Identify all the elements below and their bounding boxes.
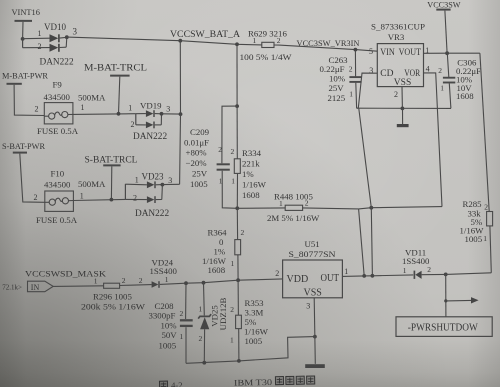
svg-text:1005: 1005 <box>159 340 177 350</box>
svg-text:25V: 25V <box>192 168 208 178</box>
power symbol M-BAT-PWR <box>2 71 48 116</box>
fuse F9 <box>35 80 107 137</box>
junction y207 <box>369 206 373 210</box>
svg-text:0: 0 <box>219 237 224 247</box>
label box -PWRSHUTDOW <box>396 317 492 337</box>
wire rail drop to VD19/VD23 <box>179 41 182 185</box>
svg-text:1: 1 <box>135 175 139 184</box>
IC U51 S_80777SN <box>275 239 348 311</box>
svg-text:+80%: +80% <box>186 148 208 158</box>
wire IN to R296 <box>53 285 103 288</box>
dual diode VD10 (DAN222) <box>21 22 78 68</box>
svg-text:3: 3 <box>166 105 170 114</box>
svg-text:100 5% 1/4W: 100 5% 1/4W <box>240 52 293 62</box>
svg-text:DAN222: DAN222 <box>135 209 169 219</box>
wire drop to OUT wire <box>371 208 375 278</box>
svg-text:R334: R334 <box>242 148 262 158</box>
svg-text:1%: 1% <box>242 169 254 179</box>
svg-text:1: 1 <box>230 336 234 345</box>
svg-text:2: 2 <box>199 334 203 343</box>
wire CD to VSS rail <box>358 73 377 108</box>
wire horizontal y207 <box>359 207 442 209</box>
resistor R364 <box>202 208 245 280</box>
svg-text:1: 1 <box>349 90 353 99</box>
junction F9/M-BAT-TRCL <box>117 112 121 116</box>
zener diode VD25 UDZ12B <box>198 283 228 363</box>
svg-text:5%: 5% <box>245 317 257 327</box>
svg-text:1: 1 <box>344 267 348 276</box>
svg-text:1005: 1005 <box>465 234 483 244</box>
svg-text:2: 2 <box>277 36 281 45</box>
svg-text:1608: 1608 <box>456 91 474 101</box>
svg-text:2: 2 <box>35 104 39 113</box>
svg-text:50V: 50V <box>162 330 178 340</box>
svg-text:VOUT: VOUT <box>399 48 422 58</box>
wire VD11 to R285 foot <box>446 273 492 275</box>
power symbol VCC3SW <box>427 0 460 53</box>
svg-text:U51: U51 <box>305 239 320 249</box>
svg-text:1: 1 <box>80 192 84 201</box>
svg-text:10%: 10% <box>161 320 178 330</box>
svg-text:VSS: VSS <box>304 287 322 298</box>
input port IN <box>2 281 53 292</box>
wire to PWRSHUTDOWN box <box>444 274 447 316</box>
svg-text:-PWRSHUTDOW: -PWRSHUTDOW <box>408 323 479 334</box>
svg-text:2: 2 <box>230 305 234 314</box>
svg-text:200k 5% 1/16W: 200k 5% 1/16W <box>81 301 146 311</box>
junction F10/S-BAT-TRCL <box>110 198 114 202</box>
svg-text:1: 1 <box>94 277 98 286</box>
svg-text:1: 1 <box>219 177 223 186</box>
svg-text:VD19: VD19 <box>140 101 162 111</box>
svg-text:1: 1 <box>180 332 184 341</box>
dual diode VD19 (DAN222) <box>128 101 170 143</box>
fuse F10 <box>34 169 107 225</box>
svg-text:1: 1 <box>199 304 203 313</box>
resistor R285 <box>460 53 493 273</box>
svg-text:434500: 434500 <box>44 92 71 102</box>
svg-text:1SS400: 1SS400 <box>150 266 178 276</box>
svg-text:2: 2 <box>139 276 143 285</box>
svg-text:VCC3SW_VR3IN: VCC3SW_VR3IN <box>297 39 360 48</box>
svg-text:2: 2 <box>122 276 126 285</box>
svg-text:500MA: 500MA <box>78 92 106 102</box>
svg-text:VIN: VIN <box>380 48 395 58</box>
svg-text:2: 2 <box>484 203 488 212</box>
svg-text:OUT: OUT <box>321 273 340 284</box>
wire VR3 VSS pin <box>401 87 405 111</box>
svg-text:10%: 10% <box>329 73 346 83</box>
svg-text:2: 2 <box>180 309 184 318</box>
junction on rail at VD19 branch <box>178 39 182 43</box>
svg-text:2: 2 <box>131 120 135 129</box>
ground at U51 <box>305 364 325 368</box>
svg-text:VCCSW_BAT_A: VCCSW_BAT_A <box>170 29 240 39</box>
svg-text:3300pF: 3300pF <box>149 311 176 321</box>
wire VOUT <box>424 51 480 55</box>
wire VD19 pin3 to rail <box>162 112 183 116</box>
svg-text:2: 2 <box>133 194 137 203</box>
wire VSS-rail slant drop <box>359 109 372 208</box>
svg-text:VR3: VR3 <box>388 32 405 42</box>
power symbol M-BAT-TRCL <box>84 64 147 114</box>
wire VD23 pin3 up <box>162 183 179 185</box>
capacitor C208 <box>149 283 193 363</box>
svg-text:R285: R285 <box>463 199 483 209</box>
svg-text:FUSE 0.5A: FUSE 0.5A <box>36 215 78 225</box>
svg-text:0.01μF: 0.01μF <box>184 137 209 147</box>
svg-text:DAN222: DAN222 <box>133 132 167 142</box>
svg-text:2M 5% 1/16W: 2M 5% 1/16W <box>267 213 320 223</box>
svg-text:R364: R364 <box>208 227 228 237</box>
svg-text:2: 2 <box>275 269 279 278</box>
svg-text:2: 2 <box>427 265 431 274</box>
capacitor C263 <box>320 48 362 109</box>
wire VOR drop <box>424 73 443 207</box>
svg-text:434500: 434500 <box>44 180 71 190</box>
svg-text:VCC3SW: VCC3SW <box>427 0 460 9</box>
svg-text:2: 2 <box>438 66 442 75</box>
svg-text:3: 3 <box>168 176 172 185</box>
svg-text:500MA: 500MA <box>78 179 106 189</box>
svg-text:2: 2 <box>231 147 235 156</box>
svg-text:1SS400: 1SS400 <box>402 256 430 266</box>
svg-text:3.3M: 3.3M <box>245 307 264 317</box>
power symbol S-BAT-PWR <box>2 141 45 203</box>
svg-text:1: 1 <box>81 103 85 112</box>
svg-text:1: 1 <box>440 83 444 92</box>
junction VD25 <box>202 281 206 285</box>
svg-text:2: 2 <box>218 145 222 154</box>
svg-text:VD23: VD23 <box>142 172 164 182</box>
svg-text:1005: 1005 <box>245 336 263 346</box>
resistor R629 <box>240 29 293 62</box>
wire F10 to VD23 <box>73 199 125 200</box>
svg-text:2: 2 <box>349 65 353 74</box>
svg-text:CD: CD <box>380 69 393 79</box>
svg-text:VD10: VD10 <box>44 22 66 32</box>
svg-text:S-BAT-PWR: S-BAT-PWR <box>2 141 45 151</box>
junction PWRSHUTDOWN <box>444 273 448 277</box>
svg-text:VDD: VDD <box>287 274 309 285</box>
caption figure 4-2 IBM T30 <box>159 376 314 387</box>
svg-text:F9: F9 <box>53 80 63 90</box>
svg-text:M-BAT-TRCL: M-BAT-TRCL <box>84 64 147 74</box>
node VCCSWSD_MASK <box>25 268 107 278</box>
svg-text:1/16W: 1/16W <box>244 327 269 337</box>
svg-text:1: 1 <box>128 104 132 113</box>
svg-text:UDZ12B: UDZ12B <box>218 297 228 330</box>
svg-text:3: 3 <box>306 302 310 311</box>
wire VCCSW_BAT_A rail <box>67 37 378 51</box>
svg-text:221k: 221k <box>242 159 260 169</box>
svg-text:1: 1 <box>165 275 169 284</box>
svg-text:VINT16: VINT16 <box>12 8 40 17</box>
capacitor C209 <box>184 44 239 208</box>
dual diode VD23 (DAN222) <box>125 172 172 220</box>
junction on rail at R334/C209 branch <box>235 42 239 46</box>
wire R296 to VD24 <box>120 284 152 287</box>
svg-text:−20%: −20% <box>186 158 208 168</box>
svg-text:1005: 1005 <box>190 179 208 189</box>
svg-text:IBM T30: IBM T30 <box>234 377 272 387</box>
svg-text:25V: 25V <box>329 83 345 93</box>
wire bottom rail <box>186 337 315 365</box>
svg-text:1: 1 <box>403 266 407 275</box>
diode VD24 1SS400 <box>139 257 178 288</box>
arrow PWRSHUTDOWN <box>446 297 479 303</box>
svg-text:2: 2 <box>394 90 398 99</box>
svg-text:72.1k>: 72.1k> <box>2 283 22 291</box>
resistor R448 <box>237 191 358 223</box>
svg-text:1: 1 <box>279 199 283 208</box>
wire VSS rail <box>357 107 451 109</box>
resistor R334 <box>231 106 267 208</box>
svg-text:2125: 2125 <box>328 93 346 103</box>
wire jog down left <box>359 209 367 278</box>
svg-text:3: 3 <box>369 66 373 75</box>
diode VD11 1SS400 <box>402 247 446 279</box>
svg-text:1: 1 <box>38 29 42 38</box>
svg-text:FUSE 0.5A: FUSE 0.5A <box>37 126 79 136</box>
svg-text:1: 1 <box>231 259 235 268</box>
svg-text:S_80777SN: S_80777SN <box>289 249 337 259</box>
svg-text:1: 1 <box>253 36 257 45</box>
regulator VR3 S_873361CUP <box>369 22 430 100</box>
wire VD24 to U51 VDD <box>160 279 283 285</box>
svg-text:C209: C209 <box>190 127 210 137</box>
junction R364/R353 <box>236 278 240 282</box>
svg-text:3: 3 <box>73 27 78 37</box>
wire U51 OUT <box>342 275 413 277</box>
capacitor C306 <box>438 53 481 108</box>
svg-text:C208: C208 <box>155 301 175 311</box>
svg-text:2: 2 <box>38 42 42 51</box>
node VCCSW_BAT_A <box>170 29 240 39</box>
wire U51 VSS pin <box>314 298 315 364</box>
junction C208 <box>184 281 188 285</box>
svg-text:1/16W: 1/16W <box>242 180 267 190</box>
svg-text:2: 2 <box>34 193 38 202</box>
resistor R296 <box>81 276 146 311</box>
wire F9 to VD19 <box>73 113 136 116</box>
svg-text:2: 2 <box>241 228 245 237</box>
svg-text:S-BAT-TRCL: S-BAT-TRCL <box>85 156 138 166</box>
svg-text:M-BAT-PWR: M-BAT-PWR <box>2 71 48 81</box>
svg-text:5: 5 <box>369 47 373 56</box>
power symbol S-BAT-TRCL <box>85 156 138 200</box>
ground at VR3 <box>397 108 409 127</box>
junction U51 VSS <box>313 335 317 339</box>
svg-text:1: 1 <box>483 234 487 243</box>
svg-text:1608: 1608 <box>242 190 260 200</box>
svg-text:S_873361CUP: S_873361CUP <box>371 22 425 32</box>
junction R448/R364/C209 <box>235 206 239 210</box>
svg-text:1608: 1608 <box>208 265 226 275</box>
svg-text:4-2: 4-2 <box>171 380 183 387</box>
resistor R353 <box>230 280 269 361</box>
svg-text:R296 1005: R296 1005 <box>93 291 132 301</box>
power symbol VINT16 <box>12 8 40 39</box>
svg-text:F10: F10 <box>51 169 65 179</box>
svg-text:2: 2 <box>305 198 309 207</box>
svg-text:1%: 1% <box>214 246 226 256</box>
svg-text:DAN222: DAN222 <box>40 58 74 68</box>
node VCC3SW_VR3IN <box>297 39 360 48</box>
svg-text:IN: IN <box>31 283 40 292</box>
svg-text:1: 1 <box>231 177 235 186</box>
